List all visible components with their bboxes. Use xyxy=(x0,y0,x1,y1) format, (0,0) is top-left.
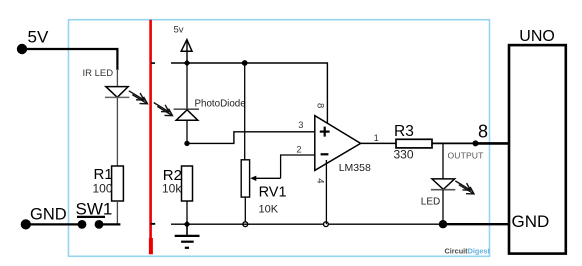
svg-text:1: 1 xyxy=(374,133,379,143)
svg-text:GND: GND xyxy=(30,205,67,223)
svg-text:R3: R3 xyxy=(394,123,414,140)
wire photodiode to node xyxy=(186,120,188,143)
ground symbol xyxy=(175,224,200,248)
svg-text:R1: R1 xyxy=(94,166,113,183)
wire stub top at divider xyxy=(151,62,155,64)
wire op-amp output to R3 xyxy=(360,142,396,144)
wire IR LED to R1 xyxy=(116,97,118,166)
resistor R1 xyxy=(93,166,124,201)
svg-text:4: 4 xyxy=(314,178,325,183)
potentiometer RV1 xyxy=(241,155,314,216)
wire bottom rail xyxy=(171,223,443,225)
switch SW1 xyxy=(76,200,113,229)
svg-text:100: 100 xyxy=(93,182,113,196)
wire op-amp pin 4 to rail xyxy=(325,160,327,224)
wire rail to RV1 top xyxy=(244,63,246,160)
photodiode D2 xyxy=(154,99,246,121)
node photodiode/R2 junction xyxy=(184,141,189,146)
wire GND to SW1 xyxy=(26,223,82,225)
svg-text:2: 2 xyxy=(296,145,301,155)
svg-text:LED: LED xyxy=(421,197,440,208)
wire LED to rail xyxy=(442,190,444,225)
wire 5V to IR LED xyxy=(22,49,117,87)
wire R3 to output node xyxy=(432,142,476,144)
svg-text:10K: 10K xyxy=(259,204,279,216)
svg-text:GND: GND xyxy=(512,212,550,231)
node ring op-amp pin4-rail xyxy=(324,222,329,227)
svg-text:PhotoDiode: PhotoDiode xyxy=(195,99,247,110)
wire R2 to rail xyxy=(186,201,188,224)
svg-text:3: 3 xyxy=(298,120,303,130)
svg-text:UNO: UNO xyxy=(519,28,555,45)
svg-text:5v: 5v xyxy=(174,25,184,36)
wire output to UNO xyxy=(476,142,509,145)
wire rail to UNO GND xyxy=(443,223,509,225)
terminal GND left xyxy=(21,205,67,229)
UNO board box xyxy=(509,28,566,254)
svg-text:10k: 10k xyxy=(162,182,182,196)
svg-text:RV1: RV1 xyxy=(259,185,287,201)
node junction ground-rail xyxy=(184,221,191,228)
power 5v symbol xyxy=(174,25,193,64)
node ring RV1-rail xyxy=(243,222,248,227)
svg-text:LM358: LM358 xyxy=(339,162,371,174)
svg-text:8: 8 xyxy=(315,103,326,108)
wire stub bottom at divider xyxy=(151,223,156,225)
svg-text:5V: 5V xyxy=(28,28,49,47)
IR LED D1 xyxy=(83,68,148,104)
resistor R2 xyxy=(162,166,193,201)
wire 5v rail xyxy=(171,63,327,123)
svg-text:330: 330 xyxy=(394,148,414,162)
wire output node to LED xyxy=(442,143,444,179)
section divider line xyxy=(149,20,153,255)
node junction rail-photodiode xyxy=(184,60,191,67)
op-amp U1 xyxy=(315,116,371,175)
node output dot xyxy=(473,140,479,146)
wire SW1 to R1 column xyxy=(99,223,120,225)
resistor R3 xyxy=(394,123,433,162)
node junction rail-RV1 xyxy=(242,60,248,66)
wire R1 to rail xyxy=(116,201,118,224)
wire rail to photodiode xyxy=(186,63,188,109)
terminal 5V xyxy=(17,28,49,55)
svg-text:IR LED: IR LED xyxy=(83,68,114,79)
wire RV1 to rail xyxy=(244,197,246,224)
wire node to op-amp pin 3 xyxy=(187,132,315,144)
LED D3 xyxy=(421,179,474,208)
svg-text:8: 8 xyxy=(478,122,488,142)
node LED-rail junction xyxy=(439,220,447,228)
svg-text:CircuitDigest: CircuitDigest xyxy=(445,246,491,255)
svg-text:OUTPUT: OUTPUT xyxy=(448,150,485,160)
